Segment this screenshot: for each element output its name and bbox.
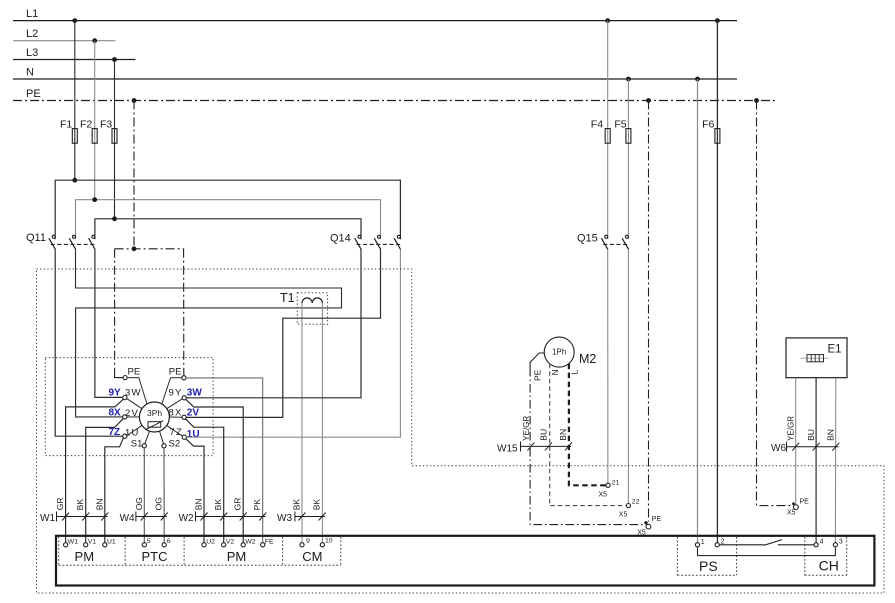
Q14 pole 1 [358, 235, 361, 238]
terminal X5:PE right [794, 505, 799, 510]
module CM box [340, 537, 342, 565]
svg-text:PE: PE [128, 366, 141, 377]
divider dashed blocks [59, 537, 847, 575]
terminal 3W left [123, 396, 127, 400]
transformer T1 [280, 291, 328, 324]
terminal X5:PE mid [646, 524, 651, 529]
junction L1/F4 [605, 18, 610, 23]
svg-text:9Y: 9Y [169, 387, 183, 398]
wire motor 3W right to strip W2 [186, 399, 243, 542]
wire L3 loop to Q11.3 / Q14.1 [95, 219, 361, 239]
svg-text:W1: W1 [68, 538, 78, 545]
wire S2 to strip 6 [163, 448, 165, 543]
wire motor 2V right to strip V2 [186, 419, 224, 543]
svg-text:PE: PE [800, 498, 810, 505]
terminal PE left [123, 376, 127, 380]
ENCLOSURES [37, 269, 885, 593]
contactor Q14 [330, 233, 401, 250]
svg-text:PS: PS [699, 558, 718, 574]
svg-text:4: 4 [820, 539, 824, 546]
Q14 coupling [357, 243, 401, 245]
svg-text:3Ph: 3Ph [147, 408, 162, 418]
module CH box [804, 537, 806, 575]
wire E1 YE/GR to X5:PE [795, 378, 797, 505]
junction loop2/F2 [92, 197, 97, 202]
svg-text:10: 10 [325, 537, 333, 544]
svg-text:W2: W2 [245, 538, 255, 545]
svg-text:W2: W2 [179, 513, 194, 524]
terminal W2 [241, 543, 245, 547]
motor lead stubs [127, 378, 183, 444]
wire Q11.1 to motor 1U left [55, 249, 123, 436]
fuse F5 [614, 79, 631, 239]
contactor Q11 [26, 232, 95, 249]
terminal PS:1 [695, 543, 699, 547]
fuse F2 [80, 41, 97, 200]
svg-text:1U: 1U [187, 429, 200, 440]
cable W6 [771, 416, 839, 454]
terminal 9 [300, 543, 304, 547]
Q11 pole 2 [73, 235, 76, 238]
svg-text:W1: W1 [40, 513, 55, 524]
svg-text:1: 1 [701, 539, 705, 546]
junction loop1/F1 [72, 178, 77, 183]
RIGHTSECTION [497, 79, 847, 543]
wire Q15.1 to X5:21 [607, 249, 609, 483]
svg-text:BK: BK [213, 499, 223, 511]
svg-text:N: N [26, 67, 34, 79]
junction N/F5 [626, 77, 631, 82]
enclosure compressor dotted [45, 358, 213, 456]
wire PE right branch to motor PE [183, 249, 185, 372]
svg-text:X5: X5 [787, 510, 796, 517]
terminal FE [261, 543, 265, 547]
wire S1 to strip 5 [143, 448, 145, 543]
svg-text:1U: 1U [125, 427, 140, 438]
Q11 coupling [51, 243, 95, 245]
terminal 1U left [123, 434, 127, 438]
terminal U2 [202, 543, 206, 547]
svg-text:CM: CM [302, 549, 322, 564]
svg-text:BN: BN [826, 429, 836, 441]
wire motor 3W right to Q14.1 [186, 249, 361, 397]
pressure switch PS contact [719, 540, 814, 546]
terminal 6 [162, 543, 166, 547]
wire L2 loop to Q11.2 / Q14.2 [76, 200, 381, 240]
svg-text:9: 9 [306, 538, 310, 545]
CONTACTORS [26, 232, 629, 249]
svg-text:8X: 8X [169, 408, 183, 419]
RIGHTWIRES [186, 249, 401, 542]
wire M2 PE lead to X5:PE [530, 353, 646, 525]
T1 [76, 249, 342, 542]
enclosure panel dotted [37, 269, 885, 593]
Q14 pole 2 [378, 235, 381, 238]
wire E1 BN to CH:3 [834, 378, 836, 543]
fuse F4 [591, 21, 610, 240]
svg-text:S2: S2 [169, 438, 181, 449]
svg-text:BK: BK [75, 499, 85, 511]
fuse F3 [100, 60, 117, 219]
terminal PS:2 [715, 543, 719, 547]
svg-text:3: 3 [839, 539, 843, 546]
junction L2/F2 [92, 38, 97, 43]
svg-text:L1: L1 [26, 8, 38, 20]
svg-text:W3: W3 [277, 513, 292, 524]
wire T1 secondary to CM 10 [321, 303, 323, 543]
wire motor 1U right to Q14.3 [186, 249, 400, 437]
svg-text:BU: BU [539, 429, 549, 441]
wire Q15.2 to X5:22 [627, 249, 629, 503]
svg-text:GR: GR [55, 498, 65, 511]
svg-text:PE: PE [26, 88, 41, 100]
svg-text:2V: 2V [125, 408, 139, 419]
wire PE drop from bus [133, 101, 135, 249]
node L1 [13, 8, 737, 21]
svg-text:7Z: 7Z [170, 427, 184, 438]
terminal X5:21 [606, 483, 610, 487]
wire motor 1U right to strip U2 [186, 439, 204, 543]
node L2 [13, 28, 115, 41]
svg-text:T1: T1 [280, 291, 295, 305]
svg-text:E1: E1 [828, 343, 842, 355]
junction L3/F3 [112, 57, 117, 62]
svg-text:BK: BK [312, 499, 322, 511]
svg-text:X5: X5 [619, 511, 628, 518]
svg-text:BN: BN [194, 498, 204, 510]
cable W1 [40, 498, 108, 524]
svg-text:FE: FE [265, 538, 274, 545]
terminal S2 [162, 444, 166, 448]
module PM2 box [282, 537, 284, 565]
wire PE drop right [757, 101, 794, 506]
terminal CH:3 [833, 543, 837, 547]
terminal W1 [64, 543, 68, 547]
wire motor 3W left to strip W1 [66, 399, 124, 543]
svg-text:PK: PK [252, 499, 262, 511]
node N [13, 67, 737, 80]
svg-text:OG: OG [154, 497, 164, 510]
terminal 2V left [123, 415, 127, 419]
terminal S1 [142, 444, 146, 448]
heater E1 [786, 338, 847, 378]
module PTC box [183, 537, 185, 565]
terminal PE right [182, 376, 186, 380]
module PS box [676, 537, 678, 575]
svg-text:CH: CH [819, 558, 839, 574]
wire motor PE right to strip FE [186, 378, 263, 543]
svg-text:U1: U1 [107, 538, 116, 545]
Q15 pole 2 [625, 235, 628, 238]
MOTOR [109, 366, 203, 449]
terminal V2 [222, 543, 226, 547]
svg-text:PE: PE [169, 366, 182, 377]
wire motor 2V right to Q14.2 [186, 249, 380, 417]
svg-text:PTC: PTC [142, 549, 168, 564]
LOOPS [55, 178, 400, 239]
svg-text:21: 21 [612, 479, 620, 486]
svg-text:BN: BN [558, 429, 568, 441]
terminal X5:22 [626, 504, 630, 508]
node PE [13, 88, 776, 101]
wire E1 BU to CH:4 [815, 378, 817, 543]
svg-text:BK: BK [291, 499, 301, 511]
svg-text:BN: BN [94, 498, 104, 510]
cable W3 [277, 499, 326, 524]
junction N/PS [695, 77, 700, 82]
terminal 2V right [182, 415, 186, 419]
svg-text:F6: F6 [702, 119, 714, 131]
svg-text:6: 6 [167, 538, 171, 545]
wire Q11.3 to motor 3W left [95, 249, 123, 397]
svg-text:1Ph: 1Ph [552, 348, 566, 357]
Q11 pole 3 [92, 235, 95, 238]
terminal 10 [320, 543, 324, 547]
svg-text:U2: U2 [206, 538, 215, 545]
wire PE tee [115, 248, 184, 250]
contactor Q15 [577, 233, 629, 250]
svg-text:BU: BU [806, 429, 816, 441]
svg-text:8X: 8X [109, 407, 122, 418]
Q14 pole 3 [397, 235, 400, 238]
svg-text:PM: PM [75, 549, 95, 564]
wire motor 1U left to strip U1 [105, 438, 124, 543]
Q15 pole 1 [605, 235, 608, 238]
svg-text:PE: PE [532, 369, 542, 381]
svg-text:22: 22 [632, 499, 640, 506]
terminal V1 [84, 543, 88, 547]
fuse F6 [702, 21, 720, 543]
fuse F1 [60, 21, 77, 181]
svg-text:L2: L2 [26, 28, 38, 40]
svg-text:L: L [570, 370, 580, 375]
terminal 5 [142, 543, 146, 547]
svg-text:Q14: Q14 [330, 233, 351, 245]
cable W15 [497, 416, 572, 455]
svg-text:N: N [550, 369, 560, 375]
svg-text:W15: W15 [497, 444, 518, 455]
wire CT primary loop (Q11.2 to motor 2V) [76, 249, 342, 417]
svg-text:F3: F3 [100, 119, 112, 131]
svg-text:W6: W6 [771, 443, 786, 454]
wire PE drop mid [648, 101, 650, 522]
svg-text:9Y: 9Y [109, 387, 122, 398]
wire M2 N lead to X5:22 [550, 364, 627, 506]
terminal strip box [56, 536, 874, 586]
svg-text:L3: L3 [26, 47, 38, 59]
wire N drop to PS:1 [697, 79, 699, 543]
svg-text:M2: M2 [579, 352, 596, 366]
LEFTWIRES [55, 249, 164, 542]
cable W4 [120, 497, 168, 524]
STRIP [40, 497, 874, 585]
terminal 1U right [182, 435, 186, 439]
svg-text:F2: F2 [80, 119, 92, 131]
svg-text:3W: 3W [125, 388, 142, 399]
node L3 [13, 47, 135, 60]
junction loop3/F3 [112, 216, 117, 221]
Q15 coupling [603, 243, 628, 245]
svg-text:GR: GR [233, 498, 243, 511]
wire PE left branch to motor PE [114, 249, 116, 373]
BUS [13, 8, 776, 103]
wire motor 2V left to strip V1 [86, 419, 124, 543]
svg-text:3W: 3W [187, 387, 203, 398]
motor M2 [544, 337, 596, 367]
Q11 pole 1 [52, 235, 55, 238]
svg-text:F1: F1 [60, 119, 72, 131]
svg-text:5: 5 [147, 538, 151, 545]
wire M2 L lead to X5:21 [569, 364, 606, 486]
compressor motor 3Ph [139, 402, 169, 432]
svg-text:OG: OG [134, 497, 144, 510]
wire L1 loop to Q11.1 / Q14.3 [55, 180, 400, 239]
wire T1 secondary to CM 9 [301, 303, 303, 543]
svg-text:YE/GR: YE/GR [522, 416, 531, 441]
svg-text:F5: F5 [614, 119, 626, 131]
svg-text:W4: W4 [120, 513, 135, 524]
terminal U1 [103, 543, 107, 547]
junction PE/left-drop [132, 98, 137, 103]
module PM1 box [58, 537, 60, 565]
terminal 3W right [182, 396, 186, 400]
svg-text:S1: S1 [131, 438, 143, 449]
junction PE/mid-drop [646, 98, 651, 103]
terminal CH:4 [814, 543, 818, 547]
svg-text:F4: F4 [591, 119, 603, 131]
cable W2 [179, 498, 267, 524]
svg-text:V2: V2 [226, 538, 235, 545]
junction PE tee [132, 246, 137, 251]
PE-NET [115, 101, 184, 378]
svg-text:Q15: Q15 [577, 233, 598, 245]
junction PE/right-drop [754, 98, 759, 103]
svg-text:PM: PM [227, 549, 247, 564]
svg-text:X5: X5 [599, 491, 608, 498]
wire PS:1 to CH:3 [698, 547, 836, 556]
junction L1/F6 [715, 18, 720, 23]
svg-text:Q11: Q11 [26, 232, 46, 244]
svg-text:V1: V1 [88, 538, 97, 545]
junction L1/F1 [72, 18, 77, 23]
thermistor symbol [145, 421, 163, 430]
svg-text:YE/GR: YE/GR [787, 416, 796, 441]
FUSES [60, 21, 720, 543]
svg-text:PE: PE [652, 516, 662, 523]
